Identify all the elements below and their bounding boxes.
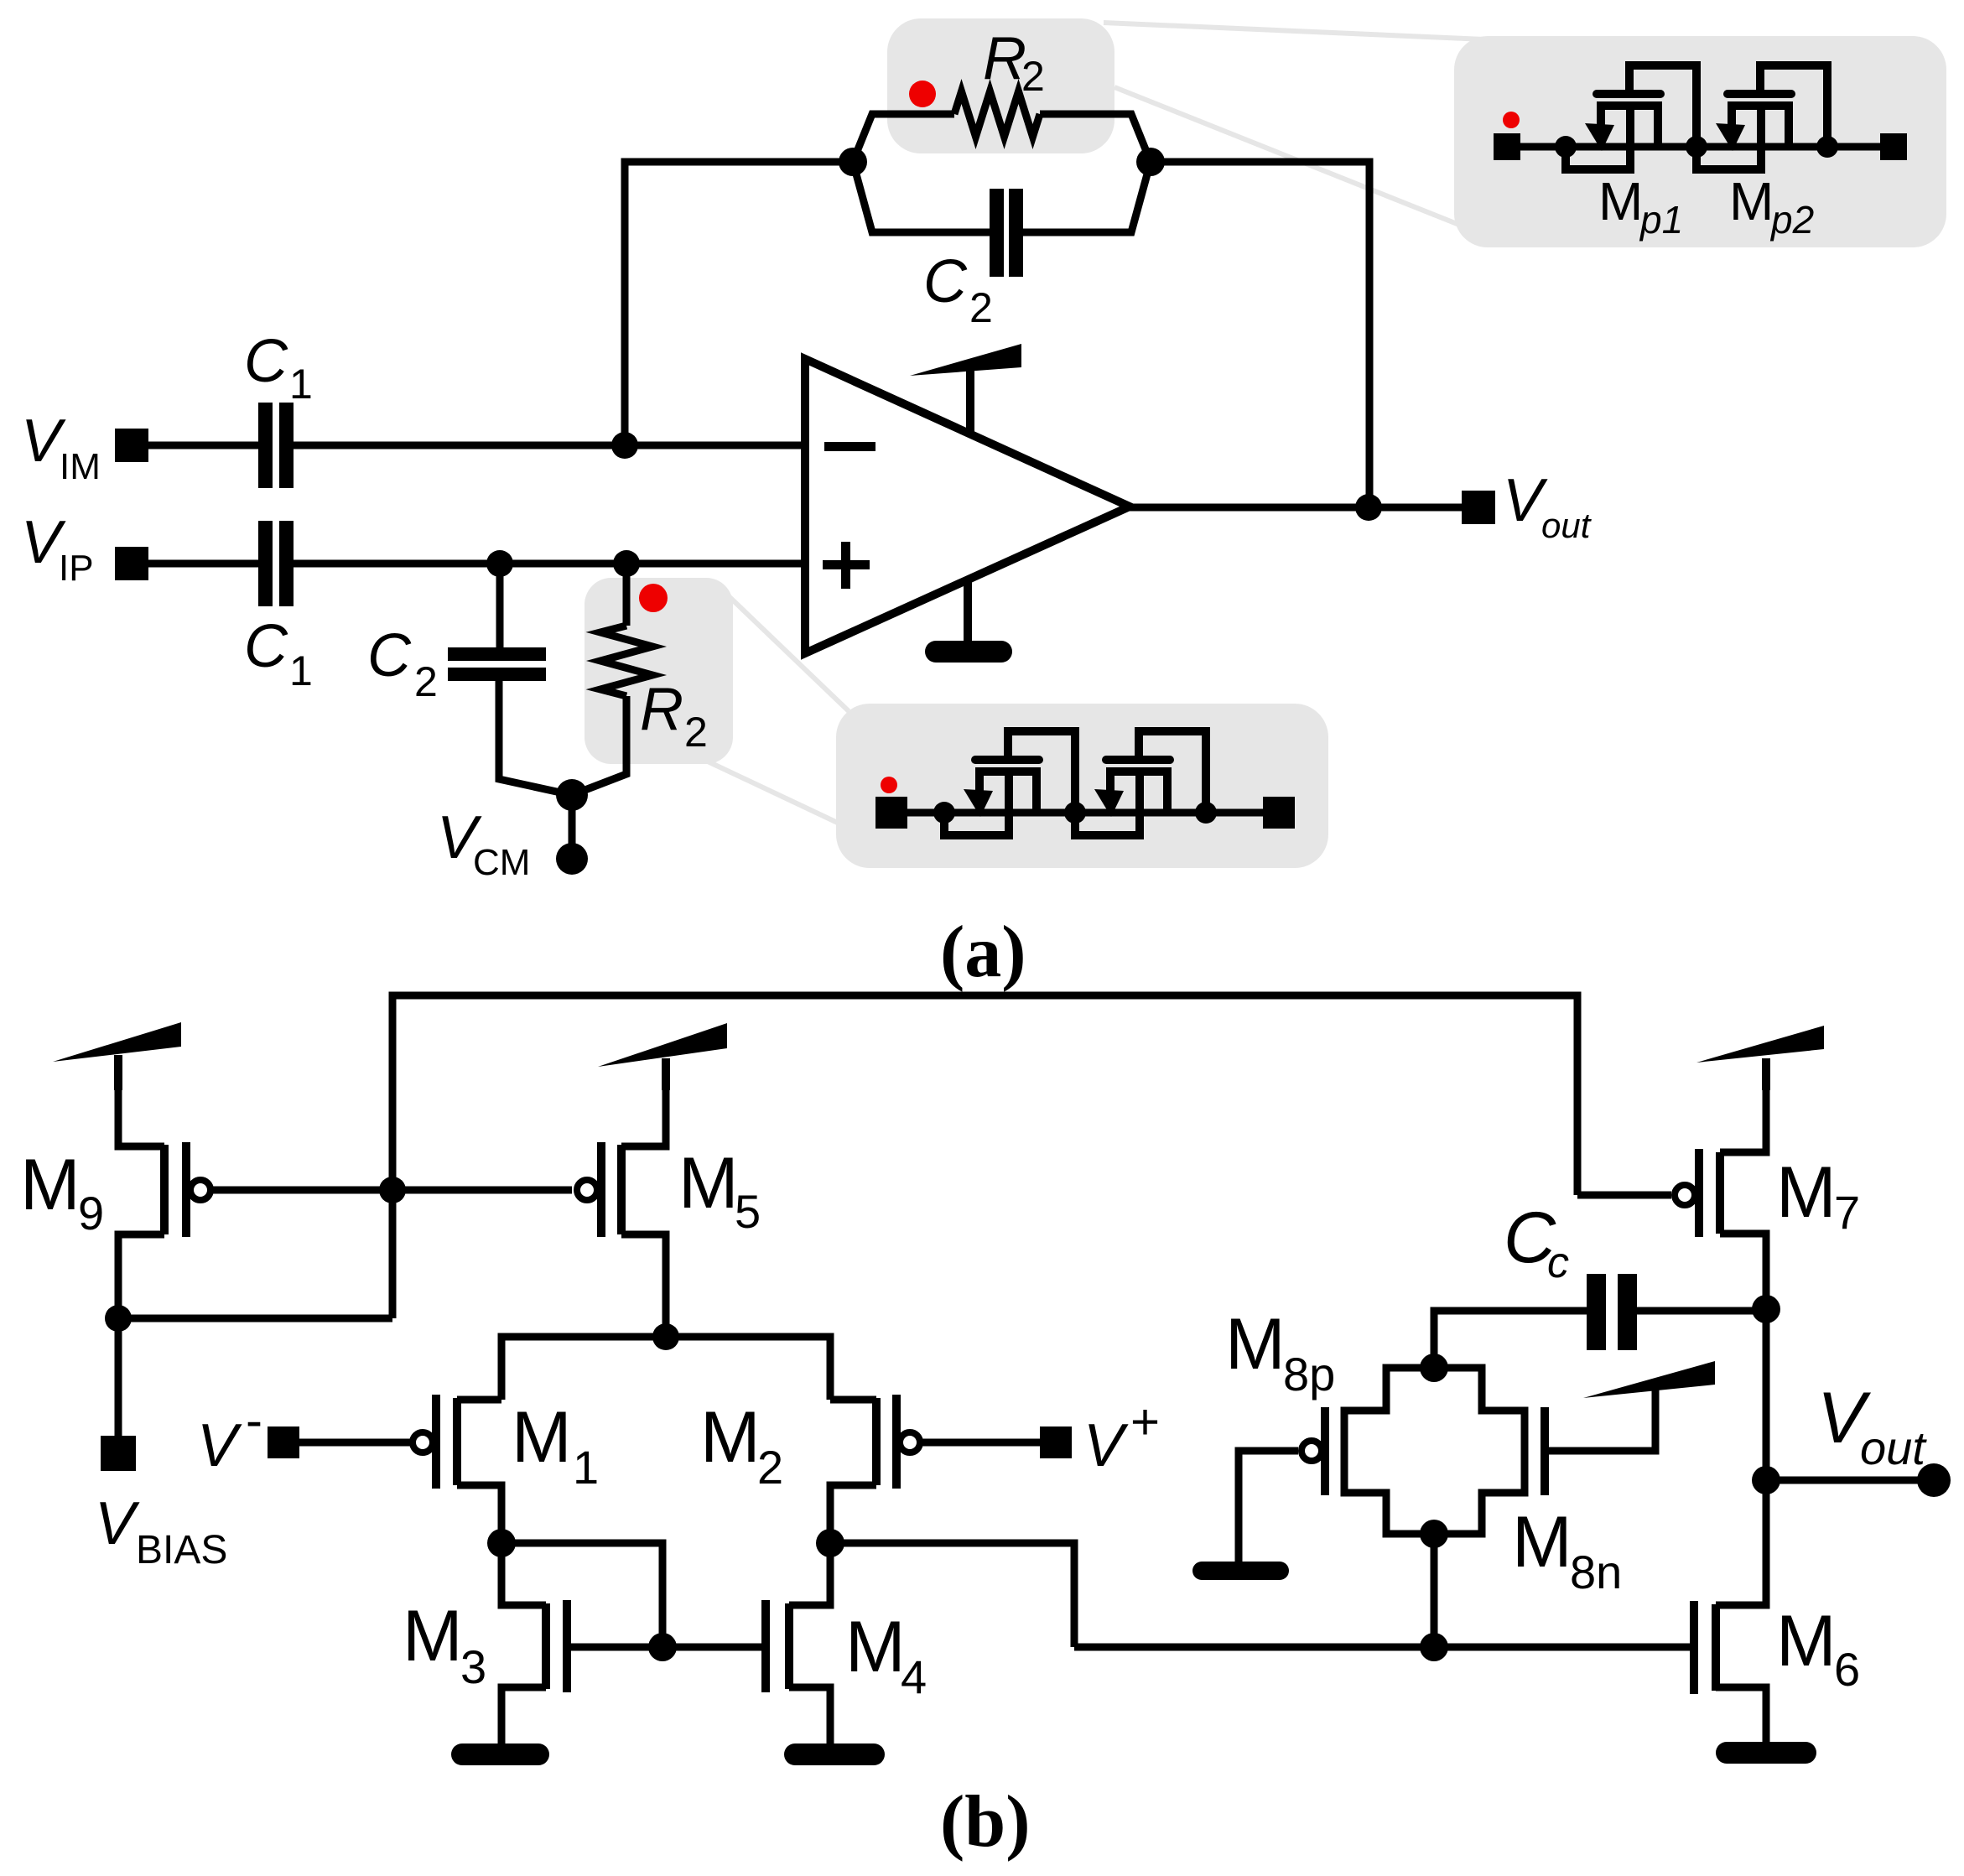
wire M6 source to ground <box>1716 1687 1766 1744</box>
gray inset box with Mp1/Mp2 pseudo-resistor schematic (top right) <box>1454 36 1946 247</box>
svg-text:6: 6 <box>1834 1643 1860 1696</box>
terminal V- (square) <box>268 1426 299 1458</box>
node junction 1 (middle inset) <box>933 802 955 824</box>
terminal right square (top inset) <box>1880 133 1907 160</box>
wire M9 source to flag <box>118 1057 164 1146</box>
svg-text:p2: p2 <box>1769 198 1814 242</box>
node B junction (M2/M4 drains) <box>816 1529 844 1557</box>
wire R2 feedback branch to right node <box>1040 114 1151 162</box>
wire bias node down to V_BIAS terminal <box>115 1318 122 1437</box>
wire left terminal to device 1 (middle inset) <box>907 809 944 817</box>
wire feedback right node to output node <box>1151 162 1369 507</box>
svg-text:1: 1 <box>289 361 313 408</box>
terminal V_BIAS (square) <box>101 1436 136 1471</box>
svg-text:M: M <box>403 1596 463 1676</box>
svg-text:8p: 8p <box>1283 1348 1335 1401</box>
svg-text:M: M <box>1776 1601 1837 1681</box>
node M9/M5 gate junction <box>379 1177 406 1203</box>
svg-text:out: out <box>1860 1421 1927 1474</box>
wire M9/M5 gate line <box>212 1187 572 1194</box>
svg-text:c: c <box>1547 1239 1569 1287</box>
wire C2 feedback branch (lower-right) <box>1019 162 1151 232</box>
transistor M4 (NMOS) <box>766 1600 789 1692</box>
wire R2 shunt branch down from V_IP line <box>623 564 631 626</box>
node V_out junction (b) <box>1752 1466 1780 1494</box>
terminal V_out (b) (filled circle) <box>1917 1463 1951 1497</box>
wire M5 source to flag <box>621 1058 666 1146</box>
wire Cc right plate to M7 drain node <box>1635 1307 1766 1315</box>
wire M8n gate to flag <box>1545 1390 1655 1451</box>
svg-text:M: M <box>1776 1152 1837 1233</box>
wire M8 block bottom node down to gate line <box>1431 1534 1438 1647</box>
svg-text:V: V <box>95 1490 140 1557</box>
wire V_out node to terminal (b) <box>1766 1477 1920 1484</box>
red dot in shunt R2 box <box>639 584 668 612</box>
svg-text:+: + <box>1130 1394 1160 1450</box>
transistor M8p gate bar and bubble <box>1302 1407 1325 1495</box>
wire M4 source to ground <box>789 1687 830 1746</box>
capacitor C2 (shunt) plates <box>448 647 546 681</box>
transistor M6 (NMOS) <box>1694 1601 1716 1694</box>
svg-text:C: C <box>244 328 288 395</box>
wire M5 drain to tail node <box>621 1234 666 1337</box>
terminal V_IP (square) <box>115 547 148 580</box>
M8 transmission-gate block outline right (M8n channel path) <box>1434 1368 1525 1534</box>
wire M2 drain to node B <box>830 1485 876 1543</box>
svg-text:CM: CM <box>473 842 530 883</box>
wire R2 feedback branch (upper) <box>853 114 954 162</box>
svg-text:5: 5 <box>735 1185 761 1238</box>
transistor M7 (PMOS) <box>1675 1149 1720 1237</box>
svg-text:M: M <box>1729 171 1774 231</box>
svg-text:IM: IM <box>60 446 101 487</box>
svg-text:2: 2 <box>684 709 708 756</box>
power supply flag of M8n <box>1583 1361 1715 1398</box>
wire M4 drain up to node B <box>789 1543 830 1605</box>
resistor R2 (shunt, vertical zigzag) <box>600 626 652 696</box>
node Mp2 drain junction <box>1816 136 1838 158</box>
wire C1 to op-amp non-inverting input <box>290 560 805 568</box>
wire bias node to gate-line vertical <box>118 1315 392 1323</box>
svg-text:R: R <box>640 676 683 743</box>
node junction V_IP to R2 <box>613 550 640 577</box>
wire M1 source stub <box>457 1396 501 1404</box>
svg-text:C: C <box>367 622 412 689</box>
svg-text:2: 2 <box>757 1441 783 1494</box>
node junction 2 (middle inset) <box>1064 802 1086 824</box>
svg-text:IP: IP <box>59 548 94 589</box>
svg-text:M: M <box>20 1145 81 1225</box>
svg-text:4: 4 <box>901 1650 927 1703</box>
ground below M4 <box>795 1743 874 1765</box>
svg-text:out: out <box>1541 506 1593 545</box>
svg-text:C: C <box>923 248 968 315</box>
M8 transmission-gate block outline left (M8p channel path) <box>1344 1368 1434 1534</box>
wire differential pair source rail <box>501 1337 830 1400</box>
node M8 block bottom junction <box>1420 1520 1448 1548</box>
ground below op-amp <box>936 579 1001 652</box>
wire M3 source to ground <box>501 1687 546 1746</box>
svg-text:2: 2 <box>414 658 438 705</box>
node feedback right junction <box>1136 148 1165 176</box>
wire M1 drain to node A <box>457 1485 501 1543</box>
svg-text:M: M <box>700 1397 761 1478</box>
resistor R2 (feedback, horizontal zigzag) <box>954 91 1040 137</box>
node second stage gate junction <box>1420 1633 1448 1661</box>
red dot (top inset) <box>1503 112 1520 128</box>
svg-text:(b): (b) <box>940 1781 1031 1863</box>
wire M7 source to flag <box>1720 1058 1766 1152</box>
callout line from feedback R2 box to Mp1/Mp2 inset (lower) <box>1114 87 1468 228</box>
power supply flag above op-amp <box>910 344 1021 434</box>
node Mp1/Mp2 middle junction <box>1686 136 1707 158</box>
svg-text:8n: 8n <box>1570 1546 1622 1598</box>
terminal right square (middle inset) <box>1263 797 1295 829</box>
terminal left square (top inset) <box>1494 133 1520 160</box>
terminal left square (middle inset) <box>875 797 907 829</box>
wire C1 to op-amp inverting input <box>290 442 805 450</box>
gray highlight box around shunt resistor R2 <box>585 578 733 764</box>
callout line from feedback R2 box to Mp1/Mp2 inset (upper) <box>1104 23 1543 42</box>
wire Cc left plate to M8 block top node <box>1434 1311 1587 1368</box>
wire M6 drain up to V_out node <box>1716 1480 1766 1605</box>
transistor M5 (PMOS) <box>577 1142 621 1237</box>
node junction on V_IM line <box>611 432 638 459</box>
callout line from shunt R2 box to lower pseudo-resistor inset (lower) <box>708 761 843 825</box>
svg-text:2: 2 <box>969 284 993 331</box>
svg-text:V: V <box>197 1412 242 1479</box>
wire M8p gate to ground <box>1239 1451 1298 1563</box>
wire V- terminal to M1 gate <box>299 1439 410 1447</box>
node bias junction <box>105 1305 132 1332</box>
pseudo-resistor transistor 2 (middle inset) <box>1075 731 1206 835</box>
terminal V_IM (square) <box>115 429 148 462</box>
wire op-amp output to V_out terminal <box>1130 504 1462 512</box>
terminal V_CM (filled circle) <box>556 843 588 875</box>
capacitor C1 (upper) plates <box>258 403 294 488</box>
svg-text:(a): (a) <box>940 912 1026 993</box>
wire M7 gate from supply rail corner <box>1577 1192 1671 1199</box>
node junction 3 (middle inset) <box>1195 802 1217 824</box>
wire V_CM node to terminal <box>569 795 576 847</box>
ground below M3 <box>462 1743 538 1765</box>
wire device 2 to right terminal (middle inset) <box>1206 809 1263 817</box>
node M3/M4 gate junction <box>648 1633 677 1661</box>
pseudo-resistor transistor 1 (middle inset) <box>944 731 1075 835</box>
svg-text:M: M <box>1512 1502 1572 1582</box>
wire left terminal to Mp1 (top inset) <box>1520 143 1566 151</box>
svg-text:M: M <box>1598 171 1643 231</box>
wire M2 source stub <box>830 1396 876 1404</box>
terminal V_out (square) <box>1462 491 1495 524</box>
pseudo-resistor transistor Mp2 (top inset) <box>1696 65 1827 169</box>
wire M3/M4 gate line <box>567 1644 766 1651</box>
power supply flag of M9 <box>53 1022 181 1090</box>
op-amp non-inverting input plus sign <box>823 542 870 589</box>
svg-text:1: 1 <box>289 647 313 694</box>
node output junction <box>1355 494 1382 521</box>
svg-text:M: M <box>678 1143 739 1224</box>
gray highlight box around feedback resistor R2 <box>887 18 1114 153</box>
node V_CM junction <box>556 779 588 811</box>
ground below M6 <box>1727 1742 1806 1764</box>
op-amp inverting input minus sign <box>824 442 875 451</box>
svg-text:M: M <box>1225 1304 1286 1385</box>
svg-text:9: 9 <box>78 1187 104 1239</box>
wire V_IP input to C1 <box>148 560 258 568</box>
svg-text:1: 1 <box>573 1441 599 1494</box>
capacitor C1 (lower) plates <box>258 521 294 606</box>
callout line from shunt R2 box to lower pseudo-resistor inset (upper) <box>728 595 849 711</box>
node M8 block top junction <box>1420 1354 1448 1382</box>
svg-text:C: C <box>244 613 288 680</box>
transistor M1 (PMOS) <box>413 1395 457 1489</box>
terminal V+ (square) <box>1040 1426 1072 1458</box>
transistor M9 (PMOS) <box>164 1142 210 1237</box>
svg-text:R: R <box>983 25 1026 92</box>
node tail junction (M5 drain) <box>652 1323 679 1350</box>
svg-text:M: M <box>845 1607 906 1687</box>
wire Mp2 to right terminal (top inset) <box>1827 143 1880 151</box>
wire feedback from node on V_IM line up and right to R2/C2 left node <box>625 162 853 445</box>
svg-text:-: - <box>246 1392 262 1448</box>
transistor M2 (PMOS) <box>876 1395 920 1489</box>
wire R2 shunt bottom to V_CM node <box>572 696 626 795</box>
svg-text:3: 3 <box>460 1640 486 1693</box>
capacitor Cc plates <box>1587 1274 1637 1350</box>
power supply flag of M5 <box>598 1023 727 1090</box>
wire C2 shunt branch down from V_IP line <box>496 564 504 649</box>
svg-text:BIAS: BIAS <box>136 1528 227 1572</box>
wire C2 feedback branch (lower-left) <box>853 162 990 232</box>
node junction V_IP to C2 <box>486 550 513 577</box>
node A junction (M1/M3 drains) <box>487 1529 516 1557</box>
svg-text:M: M <box>512 1397 572 1478</box>
svg-text:V: V <box>1083 1412 1129 1479</box>
transistor M8n gate bar <box>1541 1407 1549 1495</box>
gray inset box with pseudo-resistor schematic (middle) <box>836 704 1328 868</box>
wire top supply rail of (b) <box>392 995 1577 1318</box>
transistor M3 (NMOS) <box>546 1600 567 1692</box>
svg-text:7: 7 <box>1834 1186 1860 1239</box>
ground below M8p gate <box>1202 1562 1280 1580</box>
red dot (middle inset) <box>881 777 897 793</box>
wire second stage gate line to M6 gate <box>1074 1644 1694 1651</box>
wire M9 drain to bias node <box>118 1234 164 1318</box>
wire node A to M3/M4 gate node <box>501 1543 662 1647</box>
power supply flag of M7 <box>1696 1026 1824 1090</box>
wire node B to second stage gate line <box>830 1543 1074 1647</box>
op-amp U1 triangle <box>805 359 1130 653</box>
svg-text:p1: p1 <box>1639 198 1683 242</box>
red dot in feedback R2 box <box>909 81 936 107</box>
capacitor C2 (feedback) plates <box>990 189 1023 277</box>
pseudo-resistor transistor Mp1 (top inset) <box>1566 65 1696 169</box>
wire M3 drain up to node A <box>501 1543 546 1605</box>
node feedback left junction <box>839 148 867 176</box>
wire M2 gate to V+ terminal <box>922 1439 1040 1447</box>
svg-text:2: 2 <box>1021 53 1045 100</box>
node Mp1 source junction <box>1555 136 1577 158</box>
wire C2 shunt bottom to V_CM node <box>499 678 572 795</box>
node Cc/M7 drain junction <box>1752 1295 1780 1323</box>
wire V_IM input to C1 <box>148 442 258 450</box>
wire M7 drain down to V_out node <box>1720 1234 1766 1480</box>
